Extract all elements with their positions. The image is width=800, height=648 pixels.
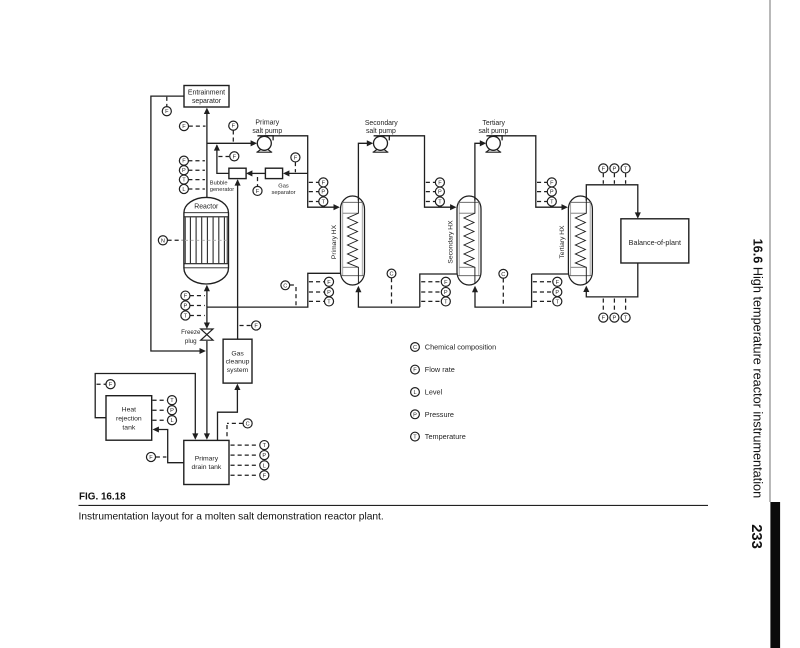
arrow into drain tank (freeze line) — [204, 433, 210, 439]
instrument C tertiary loop — [499, 269, 508, 278]
arrow into HRT — [153, 426, 159, 432]
svg-text:Reactor: Reactor — [194, 204, 219, 211]
bubble generator — [229, 168, 246, 178]
svg-text:salt pump: salt pump — [478, 128, 508, 135]
svg-text:C: C — [501, 272, 505, 278]
tertiary pump suction wire — [475, 143, 480, 200]
tertiary HX shell outlet wire — [532, 273, 569, 275]
arrow into reactor bottom — [204, 285, 210, 291]
svg-text:Pressure: Pressure — [425, 410, 454, 419]
svg-text:Tertiary: Tertiary — [482, 120, 505, 127]
drain tank T/P/L/F leads — [231, 444, 259, 446]
instrument F pump suction — [229, 121, 238, 130]
lead C primary loop — [290, 284, 296, 286]
reactor vessel — [184, 197, 229, 284]
instrument F riser upper — [179, 122, 188, 131]
gas separator — [265, 168, 282, 178]
instrument F tertiary HX outlet — [553, 277, 562, 286]
tertiary HX outlet F/P/T leads — [533, 281, 553, 283]
instrument F drain tank — [260, 471, 269, 480]
secondary HX inlet F/P/T leads — [426, 181, 436, 183]
svg-text:P: P — [413, 412, 417, 418]
svg-text:F: F — [263, 473, 267, 479]
svg-text:F: F — [294, 155, 298, 161]
instrument P HRT — [167, 406, 176, 415]
svg-text:F: F — [109, 382, 113, 388]
svg-text:Bubble: Bubble — [210, 181, 228, 187]
svg-text:F: F — [444, 280, 448, 286]
instrument F secondary HX outlet — [441, 277, 450, 286]
wire heat rejection to drain tank — [95, 374, 195, 435]
svg-text:rejection: rejection — [116, 415, 142, 422]
svg-text:T: T — [327, 299, 331, 305]
svg-text:P: P — [327, 290, 331, 296]
tertiary HX inlet F/P/T leads — [537, 181, 547, 183]
svg-text:C: C — [246, 421, 250, 427]
svg-text:P: P — [444, 290, 448, 296]
reactor bottom F/P/T leads — [190, 295, 205, 297]
instrument F drain-HRT — [146, 452, 155, 461]
instrument L drain tank — [260, 461, 269, 470]
lead F top-left — [166, 97, 168, 107]
lead F riser upper — [189, 125, 206, 127]
primary HX shell outlet wire — [207, 273, 341, 307]
svg-text:Entrainment: Entrainment — [188, 90, 225, 97]
svg-text:T: T — [413, 435, 417, 441]
svg-text:F: F — [327, 280, 331, 286]
secondary pump discharge wire — [381, 136, 453, 207]
svg-text:F: F — [602, 316, 606, 322]
wire gas separator to bubble generator — [250, 172, 265, 174]
svg-text:generator: generator — [210, 187, 234, 193]
svg-text:F: F — [254, 324, 258, 330]
instrument C primary loop — [281, 281, 290, 290]
instrument F BOP bottom — [599, 313, 608, 322]
arrow into primary pump — [251, 140, 257, 146]
svg-text:F: F — [602, 166, 606, 172]
svg-text:F: F — [184, 294, 188, 300]
svg-text:system: system — [227, 367, 249, 374]
svg-text:P: P — [170, 408, 174, 414]
balance-of-plant box — [621, 219, 689, 263]
primary pump discharge wire — [264, 136, 336, 207]
arrow into primary HX coil — [355, 286, 361, 292]
sidebar rule — [769, 0, 771, 502]
svg-text:Tertiary HX: Tertiary HX — [559, 225, 566, 259]
svg-text:P: P — [321, 190, 325, 196]
instrument N neutron flux — [158, 236, 167, 245]
arrow into tertiary HX inlet — [562, 204, 568, 210]
BOP bottom F/P/T leads — [602, 299, 604, 313]
svg-text:T: T — [550, 200, 554, 206]
instrument P secondary HX inlet — [435, 187, 444, 196]
wire drain tank to HRT — [158, 430, 184, 463]
svg-text:F: F — [182, 159, 186, 165]
instrument P secondary HX outlet — [441, 287, 450, 296]
instrument T reactor bottom — [181, 311, 190, 320]
secondary HX shell outlet wire — [420, 274, 457, 307]
svg-text:T: T — [438, 200, 442, 206]
arrow into drain tank (HRT line) — [192, 433, 198, 439]
instrument P primary HX outlet — [324, 287, 333, 296]
svg-text:FIG. 16.18: FIG. 16.18 — [79, 492, 126, 503]
lead F above cleanup — [240, 325, 251, 327]
wire gas cleanup to bubble generator — [237, 180, 239, 339]
lead F drain-HRT — [156, 456, 167, 458]
svg-text:F: F — [413, 368, 417, 374]
svg-text:Temperature: Temperature — [425, 432, 466, 441]
instrument P tertiary HX inlet — [547, 187, 556, 196]
svg-text:T: T — [170, 398, 174, 404]
instrument F top-left — [162, 107, 171, 116]
svg-text:16.6 High temperature reactor: 16.6 High temperature reactor instrument… — [751, 239, 765, 499]
svg-text:L: L — [263, 463, 266, 469]
svg-text:P: P — [438, 190, 442, 196]
primary HX outlet F/P/T leads — [309, 281, 325, 283]
legend L — [411, 388, 420, 397]
instrument L reactor top — [179, 184, 188, 193]
pump P1 — [256, 136, 273, 152]
svg-text:T: T — [182, 178, 186, 184]
svg-text:F: F — [149, 455, 153, 461]
reactor return riser — [206, 291, 208, 307]
primary HX inlet F/P/T leads — [309, 181, 319, 183]
svg-text:F: F — [550, 180, 554, 186]
svg-text:T: T — [322, 200, 326, 206]
legend P — [411, 410, 420, 419]
instrument T drain tank — [260, 441, 269, 450]
svg-text:C: C — [389, 272, 393, 278]
svg-text:T: T — [184, 314, 188, 320]
primary drain tank — [184, 440, 229, 484]
svg-text:P: P — [262, 453, 266, 459]
caption rule — [79, 504, 709, 506]
svg-text:C: C — [413, 345, 417, 351]
instrument T reactor top — [179, 175, 188, 184]
gas cleanup system — [223, 339, 252, 383]
svg-text:P: P — [182, 168, 186, 174]
arrow up into suction line — [214, 144, 220, 150]
HRT T/P/L leads — [153, 399, 167, 401]
arrow into separator — [204, 108, 210, 114]
instrument F above cleanup — [252, 321, 261, 330]
reactor drain wire — [206, 307, 208, 324]
svg-text:Gas: Gas — [278, 183, 289, 189]
instrument P BOP bottom — [610, 313, 619, 322]
svg-text:tank: tank — [122, 424, 135, 431]
arrow into bubble generator — [246, 170, 252, 176]
instrument T secondary HX inlet — [435, 197, 444, 206]
instrument T BOP bottom — [621, 313, 630, 322]
svg-text:plug: plug — [185, 338, 197, 345]
svg-text:Primary HX: Primary HX — [331, 224, 338, 259]
svg-text:F: F — [322, 180, 326, 186]
arrow into secondary HX coil — [472, 286, 478, 292]
svg-text:F: F — [438, 180, 442, 186]
lead F gas line — [294, 162, 296, 172]
tertiary HX — [568, 196, 592, 285]
wire riser to primary pump — [207, 142, 251, 144]
instrument T secondary HX outlet — [441, 297, 450, 306]
svg-text:P: P — [184, 304, 188, 310]
svg-text:Heat: Heat — [122, 406, 136, 413]
svg-text:T: T — [444, 299, 448, 305]
secondary coil return wire — [358, 292, 419, 307]
wire drain tank to gas cleanup — [218, 389, 238, 441]
wire separator left loop — [151, 96, 200, 351]
svg-text:T: T — [263, 443, 267, 449]
svg-text:drain tank: drain tank — [191, 464, 221, 471]
instrument F primary HX outlet — [324, 277, 333, 286]
svg-text:T: T — [624, 166, 628, 172]
instrument P tertiary HX outlet — [553, 287, 562, 296]
instrument T primary HX inlet — [319, 197, 328, 206]
instrument F secondary HX inlet — [435, 178, 444, 187]
svg-text:salt pump: salt pump — [252, 128, 282, 135]
svg-text:233: 233 — [748, 524, 764, 549]
sidebar black bar — [770, 502, 780, 648]
svg-text:separator: separator — [271, 190, 295, 196]
svg-text:Chemical composition: Chemical composition — [425, 343, 496, 352]
svg-text:Secondary HX: Secondary HX — [447, 220, 454, 264]
instrument P reactor top — [179, 166, 188, 175]
svg-text:F: F — [232, 124, 236, 130]
arrow into primary HX inlet — [334, 204, 340, 210]
wire bubble generator to pump suction — [217, 145, 229, 173]
svg-text:cleanup: cleanup — [226, 359, 250, 366]
secondary HX outlet F/P/T leads — [421, 281, 441, 283]
instrument P primary HX inlet — [319, 187, 328, 196]
secondary HX — [457, 196, 481, 285]
instrument P drain tank — [260, 451, 269, 460]
instrument P reactor bottom — [181, 301, 190, 310]
freeze plug — [201, 329, 213, 340]
reactor F/P/T/L leads — [188, 160, 205, 162]
svg-text:P: P — [555, 290, 559, 296]
instrument T tertiary HX inlet — [547, 197, 556, 206]
svg-text:F: F — [233, 154, 237, 160]
BOP top F/P/T leads — [602, 173, 604, 184]
svg-text:F: F — [556, 280, 560, 286]
svg-text:Primary: Primary — [255, 120, 279, 127]
arrow into secondary HX inlet — [450, 204, 456, 210]
tertiary pump discharge wire — [493, 136, 564, 207]
legend T — [411, 432, 420, 441]
lead C drain tank — [227, 422, 243, 424]
tertiary coil return wire — [475, 274, 532, 307]
pump P2 — [373, 136, 390, 152]
pump P3 — [485, 136, 502, 152]
svg-text:Gas: Gas — [231, 350, 244, 357]
svg-text:F: F — [182, 124, 186, 130]
lead N — [168, 239, 183, 241]
lead F below bubble gen — [257, 177, 259, 186]
lead F between — [218, 156, 229, 158]
svg-text:P: P — [613, 316, 617, 322]
BOP feed wire — [586, 185, 638, 214]
svg-text:T: T — [556, 299, 560, 305]
svg-text:Balance-of-plant: Balance-of-plant — [629, 238, 681, 247]
svg-text:P: P — [550, 190, 554, 196]
instrument F gas line — [291, 153, 300, 162]
BOP return wire — [586, 263, 638, 297]
svg-text:F: F — [165, 109, 169, 115]
secondary pump suction wire — [358, 143, 367, 200]
arrow into tertiary HX coil — [583, 286, 589, 292]
arrow into gas cleanup bottom — [234, 384, 240, 390]
instrument P BOP top — [610, 164, 619, 173]
legend F — [411, 365, 420, 374]
svg-text:Secondary: Secondary — [365, 120, 398, 127]
svg-text:Freeze: Freeze — [181, 329, 201, 336]
instrument F below bubble gen — [253, 186, 262, 195]
svg-text:Instrumentation layout for a m: Instrumentation layout for a molten salt… — [79, 512, 384, 523]
instrument T BOP top — [621, 164, 630, 173]
svg-text:L: L — [413, 390, 416, 396]
instrument F reactor bottom — [181, 291, 190, 300]
instrument F tertiary HX inlet — [547, 178, 556, 187]
arrow into tertiary pump — [480, 140, 486, 146]
arrow into BOP — [635, 212, 641, 218]
instrument C drain tank — [243, 419, 252, 428]
primary HX — [341, 196, 365, 285]
svg-text:T: T — [624, 316, 628, 322]
lead F pump suction — [232, 130, 234, 142]
svg-text:N: N — [161, 238, 165, 244]
arrow into gas separator — [283, 170, 289, 176]
instrument F primary HX inlet — [319, 178, 328, 187]
lead C tertiary loop — [502, 278, 504, 305]
drain wire to tank — [206, 341, 208, 435]
reactor riser wire — [206, 111, 208, 197]
instrument F between — [230, 152, 239, 161]
arrow into bubble generator bottom — [235, 179, 241, 185]
svg-text:F: F — [256, 189, 260, 195]
instrument F HRT line — [106, 380, 115, 389]
svg-text:C: C — [283, 283, 287, 289]
instrument T HRT — [167, 396, 176, 405]
instrument F BOP top — [599, 164, 608, 173]
wire to gas separator — [287, 172, 308, 174]
instrument C secondary loop — [387, 269, 396, 278]
heat rejection tank — [106, 396, 152, 441]
arrow into secondary pump — [367, 140, 373, 146]
instrument F reactor top — [179, 156, 188, 165]
svg-text:Flow rate: Flow rate — [425, 365, 455, 374]
svg-text:Primary: Primary — [195, 456, 219, 463]
instrument T tertiary HX outlet — [553, 297, 562, 306]
junction arrow into drain line — [200, 348, 206, 354]
instrument L HRT — [167, 416, 176, 425]
svg-text:L: L — [170, 418, 173, 424]
svg-text:L: L — [182, 187, 185, 193]
lead F HRT line — [97, 383, 106, 385]
svg-text:salt pump: salt pump — [366, 128, 396, 135]
entrainment separator — [184, 86, 229, 108]
arrow into freeze plug — [204, 323, 210, 329]
svg-text:separator: separator — [192, 98, 222, 105]
svg-text:Level: Level — [425, 388, 443, 397]
lead C secondary loop — [391, 278, 393, 306]
legend C — [411, 343, 420, 352]
svg-text:P: P — [613, 166, 617, 172]
instrument T primary HX outlet — [324, 297, 333, 306]
